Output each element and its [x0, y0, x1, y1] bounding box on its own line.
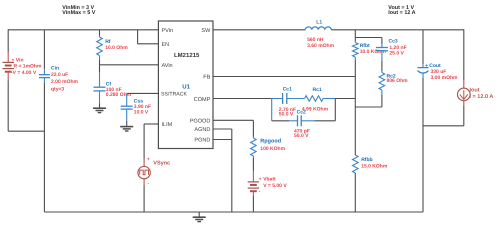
wire ILIM — [144, 124, 158, 159]
wire bottom ground rail — [44, 211, 423, 213]
svg-text:V = 5.00 V: V = 5.00 V — [263, 183, 287, 189]
pin PVin — [162, 28, 174, 34]
label Rfbb — [361, 157, 372, 163]
wire Cc3 top connector — [355, 38, 382, 45]
capacitor Cc2 — [289, 115, 314, 126]
label Vbatt value — [263, 183, 287, 189]
svg-text:2.00 mOhm: 2.00 mOhm — [51, 79, 79, 85]
svg-text:R = 1mOhm: R = 1mOhm — [14, 64, 42, 70]
label Rfbb value — [361, 164, 388, 170]
label Cf values — [106, 87, 132, 98]
pin PGND — [194, 138, 210, 144]
label Cc3 — [389, 39, 398, 45]
label Cc2 — [297, 110, 306, 116]
label Rfbt value — [360, 49, 387, 55]
voltage source VSync — [138, 159, 150, 186]
svg-text:Cc3: Cc3 — [389, 39, 398, 45]
label Rf — [105, 39, 111, 45]
wire Rf top — [99, 30, 101, 36]
ground bottom rail — [193, 212, 206, 222]
voltage source Vbatt — [248, 171, 259, 196]
wire Rpgood to Vbatt — [252, 158, 254, 171]
wire Cin branch lower — [43, 83, 45, 212]
resistor Rf — [97, 36, 103, 60]
label Cc1 values — [279, 107, 296, 118]
svg-text:Iout: Iout — [470, 88, 480, 94]
label U1 — [182, 84, 190, 91]
pin SS/TRACK — [161, 92, 187, 98]
wire Cout lower — [422, 78, 424, 212]
label Cc2 values — [294, 128, 310, 139]
wire SW to L1 — [213, 29, 305, 31]
label L1 — [316, 19, 322, 25]
svg-text:100 KOhm: 100 KOhm — [260, 146, 285, 152]
svg-text:ILIM: ILIM — [162, 122, 173, 128]
wire Cc1 to Rc1 — [287, 98, 305, 100]
wire Vin top rail — [8, 29, 158, 31]
wire Cin branch upper — [43, 30, 45, 69]
wire Rfbt top — [354, 30, 356, 41]
wire Rf to AVin — [100, 60, 159, 65]
svg-text:22.0 uF: 22.0 uF — [51, 72, 68, 78]
annotation Vout/Iout — [388, 5, 415, 16]
label Cout — [425, 63, 441, 69]
wire VSync lower — [143, 186, 145, 213]
wire Vin branch upper — [7, 29, 9, 52]
label LM21215 — [174, 52, 200, 59]
current source Iout — [458, 80, 471, 106]
svg-text:PGND: PGND — [194, 138, 210, 144]
wire COMP — [213, 98, 272, 100]
wire AGND — [213, 128, 232, 130]
svg-text:15.0 KOhm: 15.0 KOhm — [361, 164, 388, 170]
wire comp net left — [272, 98, 283, 100]
label Cin values — [51, 72, 79, 93]
svg-text:Rfbb: Rfbb — [361, 157, 372, 163]
resistor Rfbb — [353, 155, 359, 173]
label Iout value — [470, 94, 494, 100]
wire SS/TRACK — [127, 92, 159, 94]
svg-text:U1: U1 — [182, 84, 190, 91]
wire Cout upper — [422, 30, 424, 64]
svg-text:FB: FB — [203, 75, 210, 81]
svg-text:10.0 V: 10.0 V — [134, 109, 149, 115]
svg-text:10.0 Ohm: 10.0 Ohm — [105, 45, 128, 51]
capacitor Cout — [418, 64, 429, 78]
annotation VinMin/VinMax — [62, 5, 95, 16]
ground below Cf — [93, 103, 106, 112]
resistor Rpgood — [251, 137, 257, 159]
label Vbatt minus — [259, 189, 261, 195]
svg-text:Rc1: Rc1 — [313, 87, 322, 93]
svg-text:Rpgood: Rpgood — [260, 139, 281, 145]
svg-text:Cc2: Cc2 — [297, 110, 306, 116]
wire Cc3 to Rc2 — [381, 61, 383, 71]
label Rfbt — [360, 43, 370, 49]
capacitor Css — [121, 93, 133, 120]
svg-text:COMP: COMP — [194, 97, 211, 103]
op-amp U1 LM21215 box — [158, 21, 213, 149]
wire Iout upper — [463, 29, 465, 80]
pin PGOOD — [190, 118, 211, 124]
svg-text:PGOOD: PGOOD — [190, 118, 211, 124]
svg-text:+ Cout: + Cout — [425, 63, 441, 69]
pin AGND — [194, 127, 210, 133]
label Vbatt — [263, 177, 276, 183]
svg-text:PVin: PVin — [162, 28, 174, 34]
wire L1 to output node — [331, 29, 464, 31]
svg-text:Cc1: Cc1 — [283, 86, 292, 92]
svg-text:VSync: VSync — [153, 161, 170, 167]
svg-text:-V = 4.00 V: -V = 4.00 V — [11, 70, 37, 76]
label Css values — [134, 104, 151, 116]
ground below Css — [120, 121, 133, 131]
pin ILIM — [162, 122, 173, 128]
pin EN — [162, 42, 170, 48]
svg-text:3.00 mOhm: 3.00 mOhm — [431, 75, 459, 81]
label Cc1 — [283, 86, 292, 92]
svg-text:EN: EN — [162, 42, 170, 48]
wire Iout lower — [423, 106, 464, 126]
label Css — [134, 98, 143, 104]
svg-text:SS/TRACK: SS/TRACK — [161, 92, 187, 98]
pin COMP — [194, 97, 211, 103]
svg-text:50.0 V: 50.0 V — [279, 111, 294, 117]
capacitor Cc3 — [376, 44, 388, 61]
resistor Rc2 — [379, 71, 385, 94]
resistor Rfbt — [353, 41, 359, 60]
label Cc3 values — [389, 45, 406, 57]
label Cf — [106, 82, 112, 88]
wire FB — [213, 76, 355, 78]
wire FB node vertical — [354, 60, 356, 155]
svg-text:VinMax = 5 V: VinMax = 5 V — [62, 10, 95, 16]
svg-text:LM21215: LM21215 — [174, 52, 200, 59]
svg-text:Vbatt: Vbatt — [263, 177, 276, 183]
wire Rfbb lower — [354, 173, 356, 212]
label Rpgood — [260, 139, 281, 145]
capacitor Cin — [39, 69, 50, 83]
label Iout — [470, 88, 480, 94]
svg-text:3.60 mOhm: 3.60 mOhm — [307, 43, 335, 49]
svg-text:AGND: AGND — [194, 127, 210, 133]
wire Vbatt lower — [252, 196, 254, 212]
svg-text:SW: SW — [201, 28, 211, 34]
svg-text:-: - — [147, 181, 149, 187]
svg-text:qty=3: qty=3 — [51, 87, 64, 93]
wire PGOOD — [213, 120, 253, 136]
svg-text:50.0 V: 50.0 V — [294, 133, 309, 139]
wire Rc1 out — [323, 98, 355, 100]
label VSync — [153, 161, 170, 167]
label Vbatt plus — [259, 177, 262, 183]
label Vin values — [11, 57, 42, 76]
pin FB — [203, 75, 210, 81]
capacitor Cc1 — [283, 93, 287, 104]
label VSync minus — [147, 181, 149, 187]
svg-text:+ Vin: + Vin — [12, 57, 24, 63]
label VSync plus — [147, 157, 150, 163]
svg-text:+: + — [259, 177, 262, 183]
label Cin — [51, 65, 59, 71]
pin AVin — [162, 63, 173, 69]
wire EN — [138, 30, 159, 44]
label Rc1 value — [302, 106, 329, 112]
svg-text:AVin: AVin — [162, 63, 173, 69]
label Rc2 — [387, 73, 396, 79]
voltage source Vin — [3, 52, 14, 81]
wire Cc2 branch right — [314, 99, 335, 121]
wire AGND/PGND down — [231, 129, 233, 212]
label Rc2 value — [387, 78, 409, 84]
svg-text:I = 12.0 A: I = 12.0 A — [470, 94, 494, 100]
svg-text:806 Ohm: 806 Ohm — [387, 78, 409, 84]
inductor L1 — [305, 27, 331, 30]
wire Cc2 branch left — [272, 99, 289, 121]
wire Rc2 bottom connector — [355, 94, 382, 107]
label Rpgood value — [260, 146, 285, 152]
capacitor Cf — [94, 65, 106, 103]
label Rf value — [105, 45, 128, 51]
pin SW — [201, 28, 211, 34]
svg-text:25.0 V: 25.0 V — [389, 51, 404, 57]
label Rc1 — [313, 87, 322, 93]
svg-text:+: + — [147, 157, 150, 163]
label L1 values — [307, 37, 335, 49]
label Cout values — [431, 69, 459, 81]
svg-text:-: - — [259, 189, 261, 195]
svg-text:L1: L1 — [316, 19, 322, 25]
wire PGND — [213, 139, 232, 141]
svg-text:Cin: Cin — [51, 65, 59, 71]
svg-text:Iout = 12 A: Iout = 12 A — [388, 10, 415, 16]
svg-text:4.99 KOhm: 4.99 KOhm — [302, 106, 329, 112]
svg-text:Rf: Rf — [105, 39, 111, 45]
resistor Rc1 — [305, 96, 324, 102]
wire Vin branch lower — [8, 81, 44, 132]
